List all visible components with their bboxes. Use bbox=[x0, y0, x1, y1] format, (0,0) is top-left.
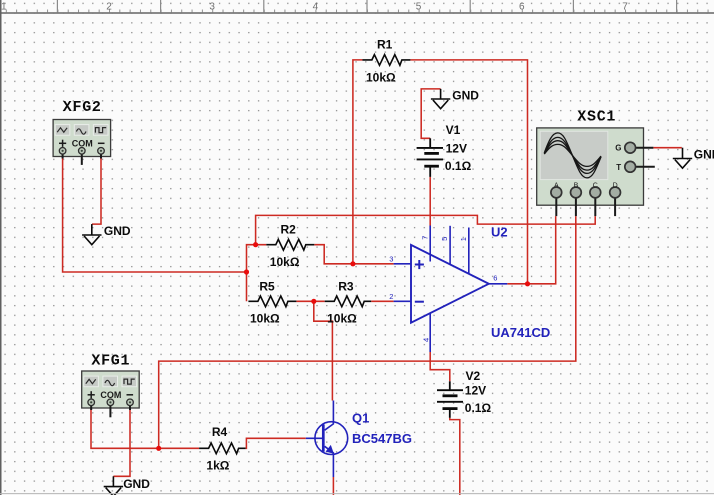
svg-text:10kΩ: 10kΩ bbox=[250, 312, 280, 326]
svg-text:XFG2: XFG2 bbox=[63, 99, 102, 116]
wire R1 right across and down to output node bbox=[410, 60, 527, 284]
svg-text:10kΩ: 10kΩ bbox=[366, 71, 396, 85]
svg-text:B: B bbox=[574, 183, 579, 190]
junction node pin3 feedback bbox=[350, 261, 355, 266]
svg-text:R1: R1 bbox=[377, 37, 393, 51]
junction node output feedback bbox=[525, 281, 530, 286]
svg-text:6: 6 bbox=[519, 1, 525, 12]
bottom edge line bbox=[0, 493, 714, 495]
svg-text:0.1Ω: 0.1Ω bbox=[445, 159, 472, 173]
op-amp U2 UA741CD bbox=[394, 226, 508, 353]
svg-text:D: D bbox=[613, 183, 618, 190]
wire XFG1 plus to R4 bbox=[91, 406, 199, 448]
svg-text:4: 4 bbox=[313, 1, 319, 12]
svg-text:V1: V1 bbox=[446, 123, 461, 137]
resistor R5 bbox=[248, 296, 296, 307]
svg-text:XFG1: XFG1 bbox=[91, 352, 130, 369]
svg-text:R5: R5 bbox=[259, 279, 275, 293]
svg-text:10kΩ: 10kΩ bbox=[270, 255, 300, 269]
wire junction down to Q1 collector bbox=[314, 301, 333, 400]
wire scope G to GND bbox=[653, 147, 681, 149]
svg-text:10kΩ: 10kΩ bbox=[327, 312, 357, 326]
ruler bbox=[0, 0, 714, 13]
junction node R5 R3 collector bbox=[311, 299, 316, 304]
svg-text:5: 5 bbox=[416, 1, 422, 12]
wire R1 left down to pin 3 node bbox=[353, 60, 363, 264]
resistor R2 bbox=[266, 239, 314, 250]
svg-text:1kΩ: 1kΩ bbox=[206, 459, 229, 473]
svg-text:R4: R4 bbox=[212, 425, 228, 439]
svg-text:R2: R2 bbox=[281, 223, 297, 237]
wire XFG2 plus down and across to node bbox=[63, 156, 247, 272]
wire long bottom net XFG1 to scope B bbox=[159, 216, 576, 448]
wire R2 right down to op-amp pin 3 bbox=[314, 245, 393, 264]
svg-text:C: C bbox=[593, 183, 598, 190]
battery V2 bbox=[437, 381, 463, 418]
svg-text:R3: R3 bbox=[338, 279, 354, 293]
battery V1 bbox=[417, 138, 443, 177]
wire Q1 emitter down to edge bbox=[332, 477, 334, 495]
wire V2 bottom down to edge bbox=[450, 418, 460, 495]
svg-text:3: 3 bbox=[209, 1, 215, 12]
junction node XFG2 to input net bbox=[244, 269, 249, 274]
transistor Q1 emitter arrow bbox=[326, 445, 334, 454]
svg-text:U2: U2 bbox=[491, 225, 508, 240]
svg-text:12V: 12V bbox=[465, 384, 486, 398]
resistor R1 bbox=[362, 55, 410, 66]
svg-text:1: 1 bbox=[1, 1, 7, 12]
function generator XFG2 bbox=[53, 120, 111, 165]
function generator XFG1 bbox=[82, 371, 140, 417]
svg-text:T: T bbox=[616, 163, 621, 172]
wire R2 left up and across to scope C with step bbox=[256, 215, 596, 244]
wire op-amp pin 4 to V2 top bbox=[430, 352, 450, 381]
svg-text:2: 2 bbox=[106, 1, 112, 12]
wire output to scope A bbox=[507, 216, 555, 284]
svg-text:GND: GND bbox=[104, 224, 131, 238]
ground GND3 right of scope G bbox=[673, 148, 692, 169]
ground GND2 at V1 top bbox=[431, 89, 450, 109]
svg-text:4: 4 bbox=[422, 338, 431, 342]
svg-text:12V: 12V bbox=[446, 141, 467, 155]
resistor R3 bbox=[325, 296, 372, 307]
svg-text:GND: GND bbox=[123, 477, 150, 491]
wire V1 top to GND bbox=[421, 89, 440, 138]
left window border bbox=[0, 0, 2, 495]
svg-text:1: 1 bbox=[459, 237, 468, 241]
wire V1 bottom down to op-amp pin 7 bbox=[429, 177, 431, 226]
junction node R2 left bbox=[253, 242, 258, 247]
svg-text:0.1Ω: 0.1Ω bbox=[465, 401, 492, 415]
svg-text:BC547BG: BC547BG bbox=[352, 431, 412, 446]
svg-text:7: 7 bbox=[622, 1, 628, 12]
svg-text:XSC1: XSC1 bbox=[577, 109, 616, 126]
wire XFG1 minus down to GND jog bbox=[113, 406, 130, 476]
junction node XFG1 R4 bbox=[156, 446, 161, 451]
wire node vertical to R2 left bbox=[247, 245, 267, 302]
svg-text:Q1: Q1 bbox=[352, 411, 369, 426]
svg-text:7: 7 bbox=[420, 236, 429, 240]
svg-text:2: 2 bbox=[389, 292, 393, 301]
oscilloscope XSC1 bbox=[537, 128, 655, 216]
transistor Q1 bbox=[306, 401, 348, 478]
svg-text:6: 6 bbox=[493, 273, 497, 282]
svg-text:GND: GND bbox=[694, 147, 714, 161]
wire R4 right jog up to Q1 base bbox=[246, 438, 306, 448]
svg-text:G: G bbox=[615, 144, 621, 153]
wire R3 right to op-amp pin 2 bbox=[371, 300, 393, 302]
wire XFG2 minus down to GND jog bbox=[92, 156, 101, 224]
ground GND1 left of XFG2 minus bbox=[82, 224, 101, 245]
resistor R4 bbox=[199, 443, 246, 454]
svg-text:UA741CD: UA741CD bbox=[491, 325, 550, 340]
svg-text:V2: V2 bbox=[466, 369, 481, 383]
ground GND4 below XFG1 minus bbox=[104, 476, 123, 495]
wire R5 right to junction bbox=[296, 300, 324, 302]
svg-text:GND: GND bbox=[452, 88, 479, 102]
svg-text:A: A bbox=[554, 183, 559, 190]
svg-text:3: 3 bbox=[389, 255, 393, 264]
svg-text:5: 5 bbox=[440, 237, 449, 241]
